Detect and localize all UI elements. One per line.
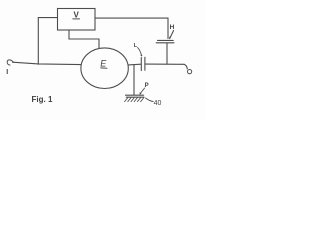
svg-text:I: I [6, 69, 8, 76]
svg-text:40: 40 [154, 100, 162, 107]
svg-text:L: L [134, 43, 138, 49]
svg-text:H: H [170, 24, 175, 31]
svg-text:Fig. 1: Fig. 1 [32, 95, 53, 104]
svg-text:V: V [74, 10, 80, 19]
svg-text:E: E [100, 58, 107, 68]
svg-text:P: P [145, 83, 149, 89]
